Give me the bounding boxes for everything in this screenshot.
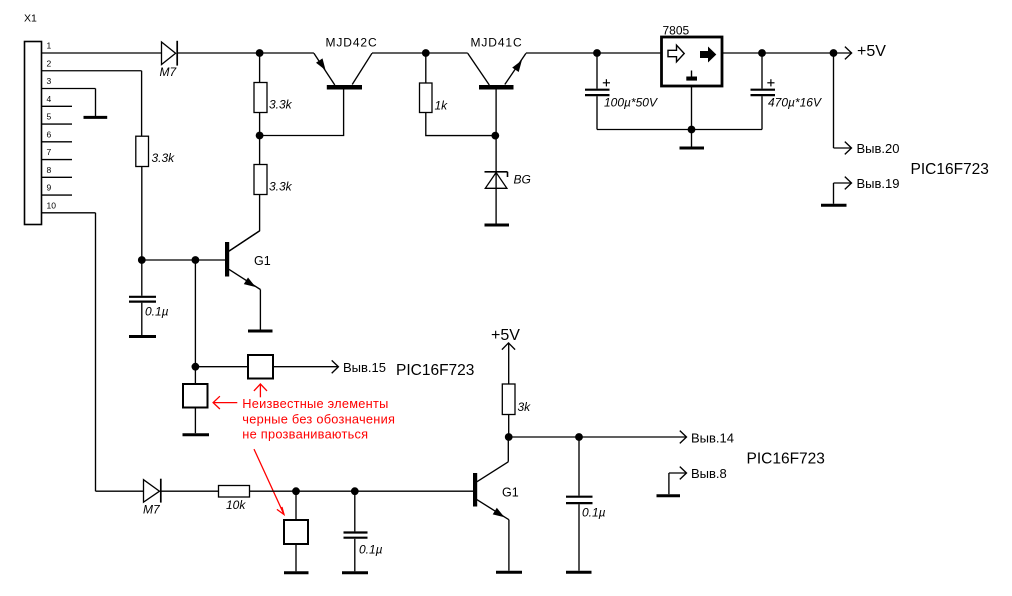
pin 1 [42, 41, 162, 54]
wire R1 to R2 [259, 113, 261, 165]
wire shunt box to ground [194, 408, 196, 434]
wire base bus [142, 259, 225, 261]
wire MJD41C emitter to 7805 [526, 52, 662, 54]
svg-text:Выв.8: Выв.8 [691, 466, 727, 481]
node +5V branch [830, 49, 838, 57]
wire 7805 out to +5V [722, 52, 852, 54]
svg-text:MJD41C: MJD41C [471, 36, 523, 50]
terminal Vyv.8 [669, 466, 727, 481]
wire R down to node [141, 167, 143, 261]
wire M7 to 10k [161, 490, 219, 492]
pin 6 [42, 129, 73, 141]
svg-text:8: 8 [47, 165, 52, 175]
ground (7805) [680, 147, 705, 150]
wire 10k to G1 base [250, 490, 474, 492]
svg-text:6: 6 [47, 129, 52, 139]
regulator U 7805 [662, 24, 723, 87]
wire Vyv.19 to ground [833, 183, 835, 204]
wire 1k bottom to BG node [426, 113, 496, 136]
svg-text:+5V: +5V [491, 327, 520, 344]
svg-text:0.1µ: 0.1µ [145, 305, 169, 319]
ground (cap left) [129, 335, 156, 338]
pin 10 [42, 200, 96, 213]
wire pin10 down to bottom rail [95, 213, 97, 491]
pin 3 [42, 76, 96, 89]
node 1k tap [422, 49, 430, 57]
svg-text:BG: BG [514, 173, 531, 187]
resistor R 1k [420, 83, 449, 113]
wire bottom rail left [96, 490, 144, 492]
capacitor 0.1u (left) [129, 260, 169, 335]
svg-text:PIC16F723: PIC16F723 [911, 161, 989, 178]
ground (BG) [485, 224, 510, 227]
svg-text:0.1µ: 0.1µ [359, 543, 383, 557]
ground (bottom box) [284, 571, 309, 574]
pin 4 [42, 94, 73, 106]
svg-text:X1: X1 [24, 13, 37, 25]
wire +5V to R 3k [508, 343, 510, 384]
svg-text:PIC16F723: PIC16F723 [747, 451, 825, 468]
node cap tap (Vyv.14) [575, 433, 583, 441]
terminal Vyv.20 [834, 141, 900, 156]
ground (Vyv.19) [821, 204, 847, 207]
wire node down to Vyv.15 row [194, 260, 196, 367]
svg-text:2: 2 [47, 58, 52, 68]
node gnd bus [688, 126, 696, 134]
wire pin2 down to R 3.3k [141, 71, 143, 136]
resistor R 10k [219, 486, 250, 513]
svg-text:470µ*16V: 470µ*16V [768, 96, 822, 110]
svg-text:3.3k: 3.3k [152, 151, 176, 165]
capacitor 0.1u (Vyv.14) [566, 437, 606, 571]
ground (pin 3) [84, 116, 108, 119]
node divider mid [256, 132, 264, 140]
diode M7 (top) [160, 41, 178, 79]
pin 7 [42, 147, 73, 160]
node bottom box tap [292, 487, 300, 495]
unknown element box (bottom) [284, 520, 308, 544]
svg-text:4: 4 [47, 94, 52, 104]
terminal +5V [845, 43, 886, 60]
wire M7 to node [177, 52, 314, 54]
svg-text:Неизвестные элементы: Неизвестные элементы [242, 396, 388, 411]
wire 3k to collector node [508, 415, 510, 438]
ground (Vyv.8) [657, 494, 681, 497]
svg-text:7805: 7805 [663, 24, 690, 38]
transistor MJD41C [468, 36, 526, 90]
svg-text:3.3k: 3.3k [269, 98, 293, 112]
capacitor 100u*50V [585, 53, 658, 130]
svg-text:G1: G1 [254, 254, 271, 268]
ground (G1 lower) [496, 571, 522, 574]
resistor R 3.3k (divider top) [254, 83, 293, 113]
wire box to terminal [273, 366, 339, 368]
wire collector node to Vyv.14 [509, 436, 687, 438]
capacitor 0.1u (bottom left) [344, 491, 383, 571]
red arrow left to shunt box [213, 396, 237, 409]
resistor R 3k [502, 384, 531, 415]
terminal +5V (lower) [491, 327, 520, 350]
wire node down to bottom box [295, 491, 297, 520]
terminal Vyv.14 [680, 431, 734, 446]
ground (cap Vyv.14) [566, 571, 592, 574]
svg-text:черные без обозначения: черные без обозначения [242, 411, 395, 426]
transistor G1 (upper) [225, 231, 271, 290]
wire node down to R1 [259, 53, 261, 83]
svg-text:0.1µ: 0.1µ [582, 506, 606, 520]
svg-text:M7: M7 [143, 503, 161, 517]
svg-text:10: 10 [47, 200, 57, 210]
ground (G1 upper) [248, 330, 273, 333]
node BG top [491, 132, 499, 140]
terminal Vyv.15 [332, 360, 386, 375]
svg-text:10k: 10k [226, 498, 246, 512]
svg-text:5: 5 [47, 112, 52, 122]
capacitor 470u*16V [751, 53, 822, 130]
svg-text:1k: 1k [435, 99, 449, 113]
svg-text:Выв.15: Выв.15 [343, 360, 386, 375]
diode M7 (bottom) [143, 479, 161, 517]
svg-text:Выв.19: Выв.19 [857, 176, 900, 191]
svg-text:Выв.20: Выв.20 [857, 141, 900, 156]
pin 2 [42, 58, 142, 70]
red arrow up to series box [254, 384, 267, 397]
svg-text:3.3k: 3.3k [269, 180, 293, 194]
wire node down to R 1k [425, 53, 427, 83]
unknown element box (series) [248, 355, 273, 379]
red note text [242, 396, 395, 442]
wire node down to shunt box [194, 367, 196, 384]
pin 9 [42, 183, 73, 195]
transistor G1 (lower) [473, 462, 519, 520]
wire MJD42C collector to MJD41C rail [372, 52, 468, 54]
svg-text:не прозваниваються: не прозваниваються [242, 427, 368, 442]
pin 8 [42, 165, 73, 178]
pin 5 [42, 112, 73, 125]
wire collector node up (G1 lower collector) [507, 437, 509, 462]
node top rail / 3.3k divider [256, 49, 264, 57]
wire bottom box to ground [295, 544, 297, 571]
svg-text:7: 7 [47, 147, 52, 157]
zener diode BG [485, 172, 531, 189]
wire MJD41C base down [495, 90, 497, 224]
wire node to MJD42C base [260, 90, 344, 136]
wire Vyv.8 to ground [668, 473, 670, 494]
wire node to element box [195, 366, 248, 368]
svg-text:1: 1 [47, 41, 52, 51]
node collector [505, 433, 513, 441]
connector X1 body [25, 42, 42, 225]
node base bus left [138, 256, 146, 264]
svg-text:M7: M7 [160, 65, 178, 79]
wire 7805 gnd pin [691, 86, 693, 147]
transistor MJD42C [314, 36, 378, 90]
svg-text:100µ*50V: 100µ*50V [604, 96, 658, 110]
node cap 470u [758, 49, 766, 57]
ground (bottom cap) [342, 571, 368, 574]
wire cap ground bus [597, 129, 762, 131]
svg-text:3: 3 [47, 76, 52, 86]
resistor R 3.3k (divider bottom) [254, 165, 293, 195]
wire +5V down to Vyv.20 [833, 53, 835, 148]
node tap down [192, 256, 200, 264]
ground (shunt box) [183, 433, 210, 436]
node Vyv.15 row [192, 363, 200, 371]
svg-text:G1: G1 [502, 486, 519, 500]
svg-text:Выв.14: Выв.14 [691, 431, 734, 446]
resistor R 3.3k (pin2) [136, 136, 175, 166]
node bottom cap tap [351, 487, 359, 495]
svg-text:PIC16F723: PIC16F723 [396, 362, 474, 379]
wire G1 emitter to ground [259, 290, 261, 330]
terminal Vyv.19 [834, 176, 900, 191]
svg-text:9: 9 [47, 183, 52, 193]
wire pin3 to ground [95, 89, 97, 117]
wire G1 emitter to ground (lower) [508, 520, 510, 571]
unknown element box (shunt) [183, 384, 208, 408]
red arrow diagonal to bottom box [254, 449, 284, 514]
svg-text:3k: 3k [518, 400, 532, 414]
node cap 100u [593, 49, 601, 57]
svg-text:+5V: +5V [857, 43, 886, 60]
svg-text:MJD42C: MJD42C [326, 36, 378, 50]
wire R2 down to G1 collector [229, 195, 260, 252]
